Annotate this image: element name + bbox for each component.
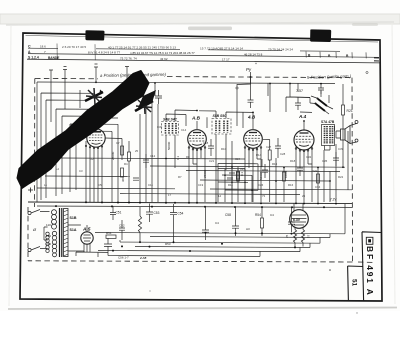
output transformer S7 <box>321 120 335 150</box>
svg-text:46 28 14 73 8: 46 28 14 73 8 <box>244 52 263 56</box>
svg-text:24: 24 <box>302 194 306 198</box>
heater wires below rectifier <box>76 252 108 257</box>
resistor R54 <box>261 218 264 228</box>
svg-text:R15: R15 <box>272 162 278 166</box>
primary winding loops (lower group) <box>52 231 56 256</box>
svg-text:C5: C5 <box>98 183 102 187</box>
grid cap wire tube AK2 <box>105 138 122 160</box>
capacitor C33 mid <box>297 162 303 176</box>
tube pin dots <box>85 145 313 152</box>
capacitor C12 mid <box>143 154 149 168</box>
svg-text:0.1: 0.1 <box>176 155 180 160</box>
svg-text:25: 25 <box>135 149 139 153</box>
wire mid rail 6 <box>120 194 300 195</box>
svg-text:2.A5: 2.A5 <box>139 256 147 260</box>
wire bottom return <box>108 251 260 256</box>
tube AK2 (frequency changer) <box>86 118 118 202</box>
resistor R50 (vertical zigzag) <box>138 216 141 233</box>
wire top distribution <box>155 83 321 112</box>
resistor R17 <box>283 172 286 181</box>
svg-text:73: 73 <box>262 194 266 198</box>
capacitor C40 right <box>333 152 339 166</box>
svg-text:C4: C4 <box>270 213 274 217</box>
svg-text:40 1 77 25.14 91 77 2 26 55 2: 40 1 77 25.14 91 77 2 26 55 21 245 1750 … <box>108 45 176 49</box>
svg-text:17 17: 17 17 <box>222 57 230 61</box>
svg-text:S1B: S1B <box>70 216 77 220</box>
binder blob right <box>310 29 331 42</box>
junction dots upper <box>95 81 344 182</box>
svg-text:50000: 50000 <box>259 171 263 180</box>
chassis boundary (dashed battery box) <box>28 77 374 263</box>
redaction band (black marker scan artifact) <box>17 71 149 189</box>
title block logo square <box>366 237 373 244</box>
voltage table rule line 3 (bottom) <box>27 59 380 63</box>
tube AB2 (detector) <box>244 113 263 203</box>
svg-text:C53: C53 <box>154 211 160 215</box>
wire mid rail 1 <box>150 166 345 167</box>
voltage table rule line 2 <box>28 54 379 58</box>
svg-text:220: 220 <box>46 242 51 246</box>
scattered component value labels <box>44 118 344 198</box>
svg-text:C12: C12 <box>150 154 156 158</box>
wire return loop 5 <box>98 247 300 251</box>
svg-text:C21: C21 <box>209 159 215 163</box>
svg-text:S4B S4C: S4B S4C <box>163 117 178 121</box>
svg-text:C: C <box>28 44 31 48</box>
wire mid rail 5 <box>37 188 352 190</box>
loudspeaker LS <box>335 126 351 144</box>
svg-text:C28: C28 <box>280 152 286 156</box>
svg-text:C35: C35 <box>322 159 328 163</box>
svg-text:BF 491 A: BF 491 A <box>365 246 375 297</box>
svg-text:A.4: A.4 <box>298 114 307 119</box>
svg-text:79 79 34 34 24 24: 79 79 34 34 24 24 <box>268 48 293 52</box>
svg-text:18.6: 18.6 <box>40 45 46 49</box>
wire speaker to terminals <box>350 124 357 144</box>
wire HT bus upper <box>28 202 352 204</box>
resistor R21 right column <box>342 105 345 115</box>
svg-text:A3: A3 <box>246 227 250 231</box>
capacitor C28 <box>275 138 281 158</box>
svg-text:R2: R2 <box>90 157 94 161</box>
capacitor C51 <box>110 206 116 220</box>
svg-text:C18: C18 <box>203 141 209 145</box>
power transformer S1 <box>44 208 77 257</box>
wire HT bus lower <box>37 206 352 207</box>
svg-text:R14: R14 <box>256 153 262 157</box>
svg-text:C3: C3 <box>79 169 83 173</box>
wire mid rail 4 <box>200 180 330 181</box>
trimmer cap near VC2 <box>155 90 162 104</box>
svg-text:BANDE: BANDE <box>48 56 59 60</box>
svg-text:C7: C7 <box>116 141 120 145</box>
tube EBL21 (indicator) <box>290 203 309 229</box>
svg-text:R11: R11 <box>228 183 233 187</box>
svg-text:43 92: 43 92 <box>160 57 168 61</box>
electrolytic C57 <box>202 207 209 240</box>
wire Py feed drop <box>237 78 251 127</box>
svg-text:C11: C11 <box>148 183 153 187</box>
capacitor C17 <box>248 96 254 108</box>
svg-text:25000: 25000 <box>203 169 207 178</box>
sheet border frame <box>20 33 382 301</box>
capacitor C54 <box>170 204 177 243</box>
svg-text:C24: C24 <box>235 157 241 161</box>
wire return loop 1 <box>95 204 345 234</box>
svg-text:S1A: S1A <box>70 228 77 232</box>
svg-text:S7A 47B: S7A 47B <box>321 120 335 124</box>
voltage table right cell dividers <box>306 52 366 59</box>
capacitor C22 mid <box>229 173 235 175</box>
svg-text:C27: C27 <box>266 145 272 149</box>
wire return loop 3 <box>120 237 320 243</box>
antenna stub 3 <box>94 64 98 82</box>
resistor R57 below EBL21 <box>293 230 296 243</box>
resistor R51 (horizontal) <box>106 235 116 238</box>
capacitor C8 mid <box>133 178 139 180</box>
voltage table rule line 1 <box>28 48 340 51</box>
rectifier tube AZ1 <box>81 225 93 252</box>
capacitor C53 <box>146 204 153 223</box>
mains switch arm 2 <box>31 247 46 251</box>
detector network cluster <box>218 164 258 203</box>
svg-text:6.3V: 6.3V <box>293 218 301 222</box>
svg-text:R10: R10 <box>221 147 227 151</box>
aerial coil box L1 (nested rectangles) <box>41 93 95 200</box>
voltage table border ticks <box>374 58 379 61</box>
mains terminal 2 <box>28 248 31 251</box>
transformer core <box>60 208 62 257</box>
voltage table column ticks <box>57 44 95 61</box>
capacitor C37 above switch <box>318 84 324 95</box>
svg-text:L1: L1 <box>44 183 48 187</box>
tube AL4 (output) <box>294 121 314 202</box>
capacitor C58 <box>232 207 239 236</box>
svg-text:14: 14 <box>218 194 222 198</box>
resistor R9 <box>237 172 240 181</box>
svg-text:C19: C19 <box>198 183 204 187</box>
svg-text:n 85 24 34.67 TS 12.78.9 14: n 85 24 34.67 TS 12.78.9 14 73 204.38.04… <box>130 51 195 55</box>
svg-text:R8: R8 <box>186 155 190 159</box>
svg-text:2 6 20 70 17 40 5: 2 6 20 70 17 40 5 <box>62 45 86 49</box>
antenna stub 2 <box>63 67 67 83</box>
coil box inner loop <box>70 124 118 192</box>
wire Py stub <box>250 72 252 80</box>
capacitor C52 <box>119 220 125 240</box>
svg-text:C34: C34 <box>315 185 321 189</box>
tuning gang VC1 <box>85 88 103 105</box>
svg-text:125: 125 <box>46 234 51 238</box>
tapped winding loops (left small) <box>46 232 49 252</box>
resistor R3 (vertical, left of IFT1) <box>121 146 124 155</box>
capacitor C29 mid <box>262 164 268 178</box>
wire mid rail 3 <box>45 175 130 178</box>
svg-text:110: 110 <box>46 223 51 227</box>
primary winding loops (upper group) <box>52 210 57 229</box>
tube AF3 (IF amplifier) <box>188 121 207 202</box>
wire upper-right mesh <box>186 80 312 167</box>
svg-text:C14: C14 <box>181 128 187 132</box>
junction dots lower <box>112 232 296 252</box>
vertical feeders left section <box>37 82 158 202</box>
secondary winding (hatched bar) <box>64 209 69 257</box>
vertical feeders right section <box>232 84 348 203</box>
svg-text:7.2V: 7.2V <box>330 198 337 202</box>
svg-text:51: 51 <box>351 279 358 287</box>
resistor value labels column <box>111 141 288 182</box>
winding taps <box>44 212 50 249</box>
svg-text:R54: R54 <box>255 213 261 217</box>
svg-text:S 1.2.4: S 1.2.4 <box>28 56 39 60</box>
svg-text:Py: Py <box>246 67 252 72</box>
svg-text:R4: R4 <box>124 162 128 166</box>
mains terminal 1 <box>28 211 31 214</box>
wire transformer to rectifier <box>68 225 84 252</box>
node plus mark <box>28 188 33 193</box>
svg-text:4.B: 4.B <box>247 115 256 120</box>
misc component labels lower <box>118 213 274 260</box>
wire switch leads <box>310 91 333 114</box>
junction dots on buses <box>55 201 337 208</box>
svg-text:17: 17 <box>168 193 172 197</box>
svg-text:R53: R53 <box>165 242 171 246</box>
svg-text:C4: C4 <box>215 221 219 225</box>
svg-text:R7: R7 <box>178 175 182 179</box>
resistor R4 column <box>128 152 131 161</box>
svg-text:R21: R21 <box>347 109 353 113</box>
wire top rail <box>37 82 335 84</box>
mains switch arm 1 <box>31 210 46 214</box>
svg-text:C32: C32 <box>306 155 312 159</box>
svg-text:C51: C51 <box>116 211 122 215</box>
svg-text:A.B: A.B <box>191 116 201 121</box>
svg-text:7.57: 7.57 <box>296 89 303 93</box>
svg-text:300: 300 <box>121 177 125 182</box>
svg-text:C30: C30 <box>157 125 163 129</box>
svg-text:1000: 1000 <box>284 171 288 178</box>
scan specks <box>329 269 331 271</box>
capacitor C59 <box>288 207 295 232</box>
svg-text:R20: R20 <box>312 169 318 173</box>
electrolytic C56 <box>104 238 112 252</box>
svg-text:R16: R16 <box>288 183 294 187</box>
svg-text:C39: C39 <box>338 147 344 151</box>
svg-text:C52: C52 <box>119 224 125 228</box>
speaker terminal bottom <box>355 139 358 142</box>
antenna stub 4 <box>125 67 129 83</box>
marker smear near tuning cap <box>138 90 156 108</box>
svg-text:S5B S5C: S5B S5C <box>213 114 228 118</box>
svg-text:25000: 25000 <box>111 151 115 160</box>
IF transformer IFT1 <box>162 110 198 202</box>
wire AVC line <box>60 158 245 159</box>
wire return loop 4 <box>135 243 310 247</box>
svg-text:L2: L2 <box>56 167 60 171</box>
svg-text:C56 1-7: C56 1-7 <box>118 256 129 260</box>
title block frame 51 <box>348 266 363 301</box>
svg-text:R51: R51 <box>106 231 112 235</box>
IF transformer IFT2 <box>199 111 253 202</box>
svg-text:73 72 76. 74: 73 72 76. 74 <box>120 56 137 60</box>
svg-text:C58: C58 <box>225 213 231 217</box>
scan smudge above border <box>188 27 232 31</box>
resistor R6 <box>121 168 124 177</box>
svg-text:C26: C26 <box>258 183 264 187</box>
svg-text:C54: C54 <box>178 212 184 216</box>
capacitor C21 between IFT1 and T2 <box>208 139 214 156</box>
svg-text:50000: 50000 <box>167 141 171 150</box>
binder blob left <box>85 30 104 40</box>
resistor R15 vertical <box>268 150 271 160</box>
resistor R19 <box>317 174 320 183</box>
svg-text:8 IV 91 4.8 24 9 14 8 77: 8 IV 91 4.8 24 9 14 8 77 <box>88 51 120 55</box>
wire mid rail 2 <box>186 171 340 172</box>
tuning gang VC2 <box>135 98 153 114</box>
svg-text:R18: R18 <box>290 159 296 163</box>
wire return loop 2 <box>150 234 330 238</box>
svg-text:R22: R22 <box>338 175 344 179</box>
capacitor C36 <box>295 97 301 110</box>
wave switch S2 contacts <box>315 98 328 112</box>
speaker terminal top <box>355 121 358 124</box>
resistor R58 below EBL21 <box>301 230 304 243</box>
title block frame BF491A <box>362 232 382 301</box>
antenna stub 1 <box>49 70 53 82</box>
svg-text:15 7.73 10 AO85 27 9.14: 15 7.73 10 AO85 27 9.14 14 14 <box>200 46 243 50</box>
oscillator coil box L2 <box>56 90 110 196</box>
